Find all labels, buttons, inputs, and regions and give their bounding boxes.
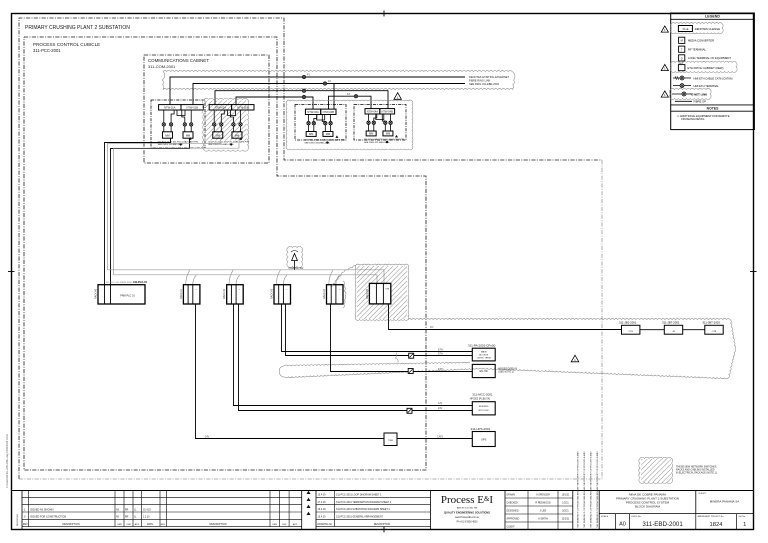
svg-text:RR: RR [125,517,129,519]
svg-text:ETH: ETH [438,349,443,352]
svg-text:MM: MM [165,134,169,138]
wire: connectors to MM2 [232,126,234,132]
wire: ring drop to rack 1 (grey) [186,270,190,285]
operator terminal box (HMI) [472,348,495,361]
svg-text:CAT6: CAT6 [437,436,444,439]
node: fibre coupler on bus L4 [302,95,305,98]
PLC remote IO rack 3 [274,285,291,304]
wire TRM to UPS [397,438,472,440]
wireless antenna symbol with revision cloud [287,246,303,267]
PLC remote IO rack 5 [369,283,390,304]
svg-text:C:\Users\AS\311-EBD-2001.dwg: C:\Users\AS\311-EBD-2001.dwg 15/04/2019 … [6,434,9,488]
svg-text:A0: A0 [619,522,626,528]
node: fibre connector 1 [367,121,370,124]
legend row 2: media converter [679,37,685,43]
dash-dot enclosure switch group D [354,105,406,141]
svg-text:APPROVED: APPROVED [507,518,520,521]
wire: switch ports to fibre connectors [368,114,370,121]
svg-text:AS: AS [116,508,120,511]
svg-text:NTW-04B: NTW-04B [382,110,394,114]
node: fibre connector 4 [239,123,242,126]
svg-text:BLOCK DIAGRAM: BLOCK DIAGRAM [635,504,661,508]
svg-text:311-PCC-2001 TERMINATION DIAGR: 311-PCC-2001 TERMINATION DIAGRAM SHEET 1 [336,501,392,504]
svg-text:MEDIA CONVERTER: MEDIA CONVERTER [688,39,714,43]
svg-text:DRAWING No.: DRAWING No. [317,523,333,526]
svg-text:ETH PATCH CABINET (NEW): ETH PATCH CABINET (NEW) [688,66,724,70]
svg-text:OTB: OTB [385,289,390,291]
revision cloud around switch group B [203,98,249,151]
node: fibre coupler on bus L1 [302,75,305,78]
svg-text:17.4.19: 17.4.19 [318,501,327,504]
wire: connectors to MM2 [324,125,326,132]
svg-text:REV: REV [161,524,166,526]
svg-text:MINERA PANAMA SA: MINERA PANAMA SA [710,499,739,503]
svg-text:PRIMARY CRUSHING PLANT 2 SUBST: PRIMARY CRUSHING PLANT 2 SUBSTATION [25,25,130,31]
svg-text:PROCESS CONTROL CUBICLE: PROCESS CONTROL CUBICLE [33,42,100,47]
svg-text:HP DES DISPLAY: HP DES DISPLAY [499,367,518,370]
svg-text:311-EBD-2001: 311-EBD-2001 [642,521,683,528]
wire: ring drop to rack 2 (grey) [229,270,233,285]
wire: rack 2 to MCC port 2 [239,304,473,411]
lower strip: scale / size / dwg no / project / sheet [599,513,753,515]
revision hatch area around switch group B [205,101,247,141]
svg-text:RR: RR [125,509,129,511]
legend row 3: patch panel [679,46,685,52]
wire: connectors to MM1 [213,126,215,132]
wire: fibre MM1 group B to ring rail 1 (grey) [108,138,221,143]
svg-text:RACK #5: RACK #5 [366,288,369,299]
svg-text:MM: MM [216,134,220,138]
svg-text:311-PCC-2001 GENERAL ARRANGEME: 311-PCC-2001 GENERAL ARRANGEMENT [336,515,383,518]
svg-text:ETH: ETH [438,368,443,371]
wire: fibre rack 5 to junction boxes [389,304,622,330]
revision cloud around switch groups C and D [286,100,413,150]
svg-text:311-FOC-03A1 311-FOC-03A2 CA: 311-FOC-03A1 311-FOC-03A2 CAT6 P/N [304,139,345,142]
svg-text:DENOTES EXISTING ETHERNET: DENOTES EXISTING ETHERNET [469,75,509,79]
substation boundary bottom edge [19,478,602,480]
node: fibre coupler on NTW-03B/NTW-04A link [354,95,357,98]
junction box 311-JB1-2001 [622,325,640,334]
svg-text:LEGEND: LEGEND [705,14,720,18]
svg-text:MAIN: MAIN [481,350,487,353]
svg-text:HP DES (P.LBL/XX): HP DES (P.LBL/XX) [470,398,491,400]
svg-text:HMI ETH TERMINAL: HMI ETH TERMINAL [694,84,720,88]
PLC remote IO rack 2 [227,285,244,304]
svg-text:CRUSHING DETAIL.: CRUSHING DETAIL. [681,117,705,121]
legend row 8: changed link (cloud) [669,88,711,99]
node: fibre coupler on bus L3 [302,89,305,92]
svg-text:D: D [681,56,683,60]
node: fibre connector 2 [220,123,223,126]
media converter MM1 of NTW-04A [366,131,376,136]
svg-text:DESCRIPTION: DESCRIPTION [209,523,226,526]
svg-text:NTW-01A: NTW-01A [164,106,176,110]
svg-text:SCALE: SCALE [601,515,609,518]
wire: connectors to MM2 [384,124,386,131]
PLC rack 0 (311-PLC-01) [98,285,145,304]
svg-text:CLIENT: CLIENT [507,527,516,529]
node: fibre connector 2 [169,123,172,126]
fibre link connector on MCC wire [407,408,412,413]
svg-text:CLIENT: CLIENT [698,493,706,495]
node: fibre coupler on bus L2 [323,82,326,85]
wire: bus L2 from switch NTW-01B [193,84,465,105]
svg-text:311-UPS-2001: 311-UPS-2001 [471,427,491,431]
svg-text:311-PLC-01: 311-PLC-01 [133,280,148,284]
revision hatch area around rack 5 [357,266,407,319]
svg-text:AS: AS [116,516,120,519]
svg-text:Ph +61 8 9300 4000: Ph +61 8 9300 4000 [457,522,478,524]
svg-text:RACK #1: RACK #1 [180,288,183,299]
wire: rack 4 to EN-700 [331,304,473,372]
svg-text:MM: MM [386,131,390,135]
centering mark top [383,11,385,17]
svg-text:CNTRL TERM: CNTRL TERM [477,357,491,359]
svg-text:REV: REV [23,524,28,526]
svg-text:NTW-04A: NTW-04A [367,110,379,114]
fibre link connector on EN-700 wire [408,369,413,374]
wire: bus L2 drop to switch NTW-03B [333,84,335,110]
wire: switch ports to fibre connectors [163,110,165,122]
legend box [671,13,755,130]
boundary box PROCESS CONTROL CUBICLE 311-PCC-2001 [24,37,426,470]
ethernet switch NTW-04B [380,109,395,114]
wire: rack 3 to HMI (ETH) [282,304,473,352]
motor control centre box [472,402,495,415]
wire: bus L4 switch NTW-02B to NTW-03A [236,97,313,109]
svg-text:UPS: UPS [481,438,487,442]
node: fibre connector 4 [389,121,392,124]
ethernet switch NTW-02B [232,105,254,110]
wire: connectors to MM2 [184,126,186,132]
svg-text:DESCRIPTION: DESCRIPTION [374,523,391,526]
svg-text:CHK: CHK [282,524,287,526]
svg-text:PRM PLC 01: PRM PLC 01 [120,295,135,298]
svg-text:311-JBT-2002: 311-JBT-2002 [662,321,680,325]
svg-text:THIS DRAWING IS COPYRIGHT AND: THIS DRAWING IS COPYRIGHT AND REMAINS TH… [577,451,580,528]
svg-text:24V: 24V [205,435,210,438]
svg-text:NTW-01B: NTW-01B [187,106,199,110]
junction box 311-JBT-2003 [705,325,723,334]
node: fibre connector 1 [213,123,216,126]
svg-text:311-PCC-2001 SUBSTATION DIAGRA: 311-PCC-2001 SUBSTATION DIAGRAM SHEET 1 [336,508,390,511]
wire JBT2 to JBT3 [683,329,705,331]
notes band [671,104,755,106]
svg-text:RACK #4: RACK #4 [323,288,326,299]
wire: ring drop to rack 4 (grey) [329,270,333,285]
revision cloud around HMI connector [395,353,398,363]
svg-text:(SEE NOTE 1): (SEE NOTE 1) [499,372,514,374]
ethernet switch NTW-02A [209,105,231,110]
svg-text:311-FOC-04A1 311-FOC-04A2 CA: 311-FOC-04A1 311-FOC-04A2 CAT6 P/N [364,138,405,141]
svg-text:NTW-02B: NTW-02B [237,106,249,110]
wire: ring drop to rack 3 (grey) [276,270,280,285]
svg-text:311-JBT-2003: 311-JBT-2003 [703,321,721,325]
svg-text:THIS DRAWING IS COPYRIGHT AND: THIS DRAWING IS COPYRIGHT AND REMAINS TH… [583,451,586,528]
boundary box PRIMARY CRUSHING PLANT 2 SUBSTATION [19,18,602,479]
wire: link switch NTW-03B to NTW-04A [329,96,372,109]
media converter MM2 of NTW-04B [383,131,393,136]
hold marker column [315,491,317,530]
svg-text:311-PCC-2001: 311-PCC-2001 [33,48,61,53]
svg-text:DWG. No.: DWG. No. [632,516,642,518]
svg-text:5/2/21: 5/2/21 [562,511,569,513]
big revision cloud over junction box chain [408,318,730,319]
svg-text:PRM-PAL-W2: PRM-PAL-W2 [289,267,305,270]
svg-text:DRAWN: DRAWN [507,494,516,497]
wire: switch ports to fibre connectors [308,115,310,122]
svg-text:E-NET LINK: E-NET LINK [692,92,708,96]
svg-text:MM: MM [326,132,330,136]
svg-text:FIBRE OP: FIBRE OP [694,100,707,104]
fibre link connector on HMI wire [409,353,414,358]
ethernet switch NTW-03A [305,109,320,114]
svg-text:MM: MM [369,131,373,135]
crossover patch wires [177,110,185,116]
revision triangle inside big cloud [571,355,579,362]
media converter MM2 of NTW-02B [232,132,242,138]
PLC remote IO rack 4 [327,285,344,304]
svg-text:LONG TERMINAL OF EQUIPMENT: LONG TERMINAL OF EQUIPMENT [688,56,731,60]
node: fibre connector 2 [372,121,375,124]
node: fibre connector 1 [162,123,165,126]
node: fibre connector 3 [384,121,387,124]
svg-text:REVISIONS: REVISIONS [17,514,19,526]
svg-text:MM: MM [235,134,239,138]
svg-text:COMMUNICATIONS CABINET: COMMUNICATIONS CABINET [148,58,209,63]
svg-text:24V: 24V [438,407,443,410]
wire: connectors to MM1 [368,124,370,131]
wire: fibre MM2 group B to ring rail 2 (grey) [114,138,240,148]
svg-text:THIS DRAWING IS COPYRIGHT AND: THIS DRAWING IS COPYRIGHT AND REMAINS TH… [596,451,599,528]
svg-text:3C+E: 3C+E [682,28,688,31]
svg-text:CHK: CHK [126,524,131,526]
wire: fibre pair MM1 group A down to PLC rack 0 [105,138,171,285]
svg-text:IN ELECTRICAL PACKAGE (NOTE 1): IN ELECTRICAL PACKAGE (NOTE 1). [676,472,718,475]
svg-text:R REDWOOD: R REDWOOD [535,502,550,505]
svg-text:DESCRIPTION: DESCRIPTION [62,523,79,526]
wire: connectors to MM1 [308,125,310,132]
wire: bus L3 switch NTW-02A to NTW-04B [215,91,388,109]
svg-text:DENOTES CHANGE: DENOTES CHANGE [695,27,720,31]
svg-text:AMENDMENT PROJECT No.: AMENDMENT PROJECT No. [698,515,725,518]
dash-dot enclosure switch group C [295,105,346,141]
terminal box TRM [384,433,397,446]
UPS box [472,432,495,447]
svg-text:HMI ETH CABLE CAT6 (CAT6A): HMI ETH CABLE CAT6 (CAT6A) [694,76,733,80]
node: fibre connector 2 [312,122,315,125]
svg-text:15.4.19: 15.4.19 [318,515,327,518]
crossover patch wires [228,110,236,116]
svg-text:SEE DWG 311-EBD-2002: SEE DWG 311-EBD-2002 [469,82,499,86]
svg-text:311-COM-2001: 311-COM-2001 [148,64,176,69]
legend row 1: denotes change (cloud) [670,22,723,33]
svg-text:311-JB1-2001: 311-JB1-2001 [619,321,637,325]
wire: fibre pair MM2 group A down to PLC rack 0 [111,138,190,285]
hatched revision sample bottom right [641,459,671,483]
svg-text:RACK #0: RACK #0 [95,288,98,299]
svg-text:19.4.19: 19.4.19 [318,508,327,511]
svg-text:NOTES: NOTES [707,106,719,110]
wire: rack 2 to MCC port 1 [234,304,473,406]
svg-text:QUALITY ENGINEERING SOLUTIONS: QUALITY ENGINEERING SOLUTIONS [444,511,490,515]
svg-text:A SMITH: A SMITH [538,518,548,521]
svg-text:1.2.19: 1.2.19 [143,517,150,519]
svg-text:SH. No.: SH. No. [739,516,746,518]
svg-text:DRN: DRN [272,524,277,526]
svg-text:NTW-03A: NTW-03A [307,110,319,114]
approvals table [505,497,573,499]
svg-text:ISSUED AS SHOWN: ISSUED AS SHOWN [30,508,54,511]
svg-text:ABN 63 123 456 789: ABN 63 123 456 789 [457,507,478,510]
svg-text:RACK #2: RACK #2 [223,288,226,299]
svg-text:DESIGNED: DESIGNED [507,511,519,513]
svg-text:311-PCC-2001 LOOP DIAGRAM SHEE: 311-PCC-2001 LOOP DIAGRAM SHEET 1 [336,494,382,497]
legend row 9: fibre line [675,100,692,102]
media converter MM2 of NTW-03B [323,132,333,137]
media converter MM1 of NTW-03A [306,132,316,137]
svg-text:OTB: OTB [712,331,717,333]
svg-text:MM: MM [309,132,313,136]
node: fibre connector 3 [232,123,235,126]
svg-text:APP: APP [135,523,140,526]
legend row 6: fibre coupler symbol [673,77,691,79]
ethernet switch NTW-04A [365,109,380,114]
svg-text:1: 1 [743,522,746,528]
media converter MM2 of NTW-01B [183,132,193,138]
node: fibre connector 4 [329,122,332,125]
svg-text:FO: FO [430,326,433,329]
junction box 311-JBT-2002 [664,325,682,334]
svg-text:www.ProcessEI.com.au: www.ProcessEI.com.au [455,516,480,519]
crossover patch wires [317,115,325,121]
title block outline [11,490,753,492]
svg-text:CHECKED: CHECKED [507,503,519,505]
svg-text:NTW-03B: NTW-03B [323,110,335,114]
svg-text:311-MCC-2001: 311-MCC-2001 [472,392,493,396]
svg-text:MODBUS: MODBUS [479,406,489,408]
media converter MM1 of NTW-01A [162,132,172,138]
svg-text:APP: APP [293,523,298,526]
legend row 7: fibre splice symbol [673,85,691,87]
svg-text:THIS DRAWING IS COPYRIGHT AND: THIS DRAWING IS COPYRIGHT AND REMAINS TH… [590,451,593,528]
revision table grid [22,496,302,498]
svg-text:ISSUED FOR CONSTRUCTION: ISSUED FOR CONSTRUCTION [30,516,66,519]
centering mark right [750,271,757,273]
node: fibre connector 4 [190,123,193,126]
media converter MM1 of NTW-02A [213,132,223,138]
node: fibre connector 3 [324,122,327,125]
legend row 4: terminal of equipment [679,55,685,61]
svg-text:15/1/21: 15/1/21 [562,495,570,497]
svg-text:M: M [681,39,683,43]
svg-text:ETH: ETH [438,352,443,355]
svg-text:15.4.19: 15.4.19 [318,494,327,497]
svg-text:RACK #3: RACK #3 [271,288,274,299]
wire: connectors to MM1 [163,126,165,132]
display box EN-700 [472,364,495,377]
svg-text:OTB: OTB [628,331,633,333]
svg-text:NTW-02A: NTW-02A [215,106,227,110]
svg-text:TRM: TRM [388,440,393,442]
svg-text:J LEE: J LEE [540,510,547,513]
svg-text:15.4.19: 15.4.19 [143,509,151,511]
node: fibre connector 3 [183,123,186,126]
wire: bus L1 from switch NTW-01A [170,77,465,105]
wire: switch ports to fibre connectors [213,110,215,122]
revision triangle near group D [394,93,402,100]
svg-text:1824: 1824 [710,522,724,528]
svg-text:DATE: DATE [147,523,153,526]
svg-text:EN-700: EN-700 [480,370,489,373]
client cell [695,491,697,514]
PLC remote IO rack 1 [183,285,200,304]
svg-text:MM: MM [186,134,190,138]
svg-text:1. ADDITIONAL EQUIPMENT FOR R: 1. ADDITIONAL EQUIPMENT FOR REMOTE [677,114,730,118]
svg-text:12/2/21: 12/2/21 [562,519,570,521]
reference drawings table [316,496,431,498]
wire: fibre optic ring rail 1 (grey) [108,143,385,284]
svg-text:1/2/21: 1/2/21 [562,503,569,505]
svg-text:311-PA-2001-CPx00: 311-PA-2001-CPx00 [468,343,496,347]
crossover patch wires [376,114,384,120]
ethernet switch NTW-01A [159,105,181,110]
revision cloud at rack 4 [343,281,346,308]
revisions sidebar column [21,491,23,530]
wire: rack 1 to TRM to UPS [196,304,385,439]
svg-text:RTU DISP: RTU DISP [479,410,490,412]
legend row 5: new network cabinet (cloud) [670,61,737,72]
svg-text:12V: 12V [438,402,443,405]
ethernet switch NTW-01B [181,105,203,110]
revision cloud around ethernet backbone buses [163,70,512,71]
wire: fibre optic ring rail 2 (grey) [114,148,378,284]
boundary box COMMUNICATIONS CABINET 311-COM-2001 [144,55,269,163]
centering mark left [8,271,15,273]
svg-text:ACCESS: ACCESS [479,353,489,356]
svg-text:A SPENCER: A SPENCER [536,494,550,497]
ethernet switch NTW-03B [321,109,336,114]
svg-text:FIBRE RING LINK: FIBRE RING LINK [469,79,491,83]
wire: connector to HMI lower port [286,304,473,356]
svg-text:DRN: DRN [117,524,122,526]
revision cloud around rack 5 [355,264,409,320]
wire JB1 to JBT2 [640,329,664,331]
svg-text:RF TERMINAL: RF TERMINAL [688,48,706,52]
centering mark bottom [383,527,385,533]
node: fibre connector 1 [307,122,310,125]
dash-dot enclosure switch group A [151,100,205,148]
svg-text:311-FOC-100 FIBRE RING: 311-FOC-100 FIBRE RING [106,282,133,284]
substation boundary right edge [601,160,603,479]
